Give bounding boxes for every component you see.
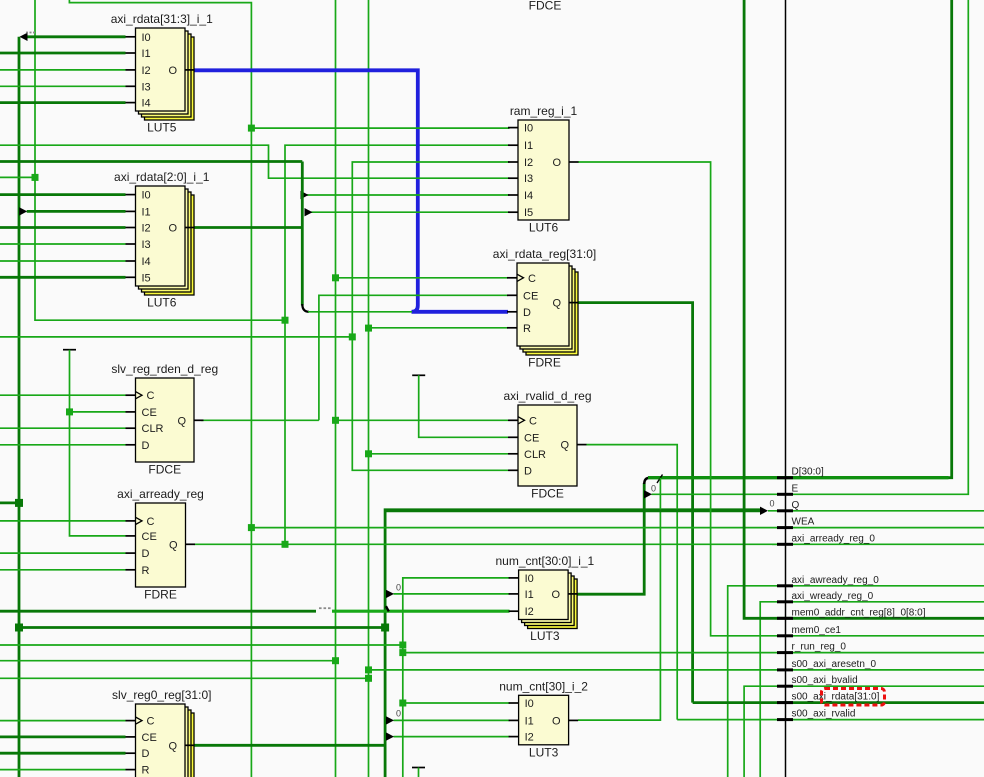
svg-text:I4: I4 — [142, 98, 151, 110]
ellipsis dots num1 I2 — [319, 607, 331, 609]
pin label E — [792, 483, 799, 494]
wire s00_axi_aresetn_0 row — [369, 669, 984, 671]
wire slv_reg_rden CE — [70, 411, 126, 413]
pin label D[30:0] — [792, 467, 824, 478]
pin label axi_arready_reg_0 — [792, 533, 876, 544]
junction V6 CLR row — [365, 450, 372, 457]
svg-text:I3: I3 — [142, 81, 151, 93]
wire LUT6 I1 — [27, 210, 126, 213]
LUT3 num_cnt[30]_i_2 — [499, 679, 588, 759]
wire axi_rvalid C row — [336, 419, 509, 421]
bus tap arrow Q — [760, 507, 768, 515]
svg-text:I5: I5 — [524, 207, 533, 219]
corner arc V12 bottom — [302, 304, 309, 312]
wire slv_reg_rden D — [0, 444, 126, 446]
bus tap arrow LUT6 I1 — [19, 207, 27, 215]
svg-text:I0: I0 — [525, 573, 534, 585]
wire V9 vertical — [419, 375, 508, 437]
svg-text:I3: I3 — [142, 239, 151, 251]
junction V10 WEA — [248, 524, 255, 531]
svg-text:D: D — [142, 548, 150, 560]
svg-text:num_cnt[30:0]_i_1: num_cnt[30:0]_i_1 — [495, 554, 594, 568]
svg-text:D: D — [524, 465, 532, 477]
pin tick E — [777, 493, 793, 496]
svg-text:C: C — [147, 516, 155, 528]
wire LUT5 I0 from bus tap — [27, 35, 126, 38]
pin label s00_axi_bvalid — [792, 675, 858, 686]
svg-text:axi_arready_reg_0: axi_arready_reg_0 — [792, 533, 876, 544]
wire axi_arready D — [0, 552, 126, 554]
svg-text:Q: Q — [169, 539, 178, 551]
svg-text:O: O — [552, 589, 561, 601]
svg-text:I2: I2 — [524, 157, 533, 169]
FDCE slv_reg_rden_d_reg — [111, 362, 218, 477]
wire V3 vertical — [70, 350, 126, 536]
wire bus V7 vertical — [385, 510, 760, 777]
pin label Q — [792, 500, 800, 511]
wire LUT6 I5 — [0, 276, 126, 279]
svg-text:axi_rdata[31:3]_i_1: axi_rdata[31:3]_i_1 — [111, 12, 213, 26]
tap index 0 D row — [651, 484, 656, 494]
svg-text:mem0_ce1: mem0_ce1 — [792, 625, 842, 636]
svg-text:0: 0 — [396, 583, 401, 593]
wire D0 tap vertical V660 — [578, 478, 660, 720]
wire ram I4 — [307, 194, 510, 196]
svg-text:I5: I5 — [142, 272, 151, 284]
wire slv_reg0 R — [0, 769, 126, 771]
LUT3 num_cnt[30:0]_i_1 — [495, 554, 594, 643]
junction V8 r_run row — [399, 649, 406, 656]
wire V1 stub y=502.9 — [0, 501, 19, 504]
wire r_run_reg_0 row — [403, 652, 984, 654]
svg-text:I0: I0 — [142, 190, 151, 202]
bus tap arrow ram I4 — [301, 191, 309, 199]
bus tap arrow num2 I1 — [386, 716, 394, 724]
wire dark row y=161.5 — [0, 160, 302, 163]
svg-text:LUT6: LUT6 — [147, 296, 177, 310]
svg-text:C: C — [528, 273, 536, 285]
wire blue highlighted net O of LUT5 to D of axi_rdata_reg — [194, 70, 508, 311]
junction V1 y=627.5 — [15, 624, 23, 632]
wire axi_awready_reg_0 row — [728, 586, 984, 777]
bus entry tick num1 I2 — [386, 606, 389, 611]
LUT5 axi_rdata[31:3]_i_1 — [111, 12, 213, 135]
pin tick WEA — [777, 526, 793, 529]
svg-text:s00_axi_rdata[31:0]: s00_axi_rdata[31:0] — [792, 692, 880, 703]
svg-text:R: R — [142, 765, 150, 777]
wire ram I2 from V352 elbow — [352, 162, 509, 337]
svg-text:I0: I0 — [525, 698, 534, 710]
svg-text:CE: CE — [524, 432, 539, 444]
wire dark row y=627.5 — [19, 626, 385, 629]
wire slv_reg_rden CLR — [0, 427, 126, 429]
wire axi_rdata_reg CE from V13 — [319, 295, 508, 420]
junction V4 y=320.2 — [282, 317, 289, 324]
wire slv_reg_rden C — [0, 394, 126, 396]
wire num2 I1 tap — [394, 719, 510, 721]
pin label axi_awready_reg_0 — [792, 575, 880, 586]
wire num1 I2 bright segment — [332, 610, 510, 613]
svg-text:Q: Q — [552, 298, 561, 310]
junction V5 C axi_rvalid — [332, 417, 339, 424]
svg-text:CE: CE — [142, 407, 157, 419]
svg-text:CLR: CLR — [142, 423, 164, 435]
pin tick s00_axi_rvalid — [777, 718, 793, 721]
svg-text:FDCE: FDCE — [529, 0, 562, 13]
svg-text:I4: I4 — [524, 190, 533, 202]
svg-text:O: O — [168, 65, 177, 77]
pin tick mem0_ce1 — [777, 634, 793, 637]
pin label s00_axi_aresetn_0 — [792, 659, 877, 670]
svg-text:LUT3: LUT3 — [529, 745, 559, 759]
wire V4 vertical x=285 — [285, 145, 510, 544]
svg-text:ram_reg_i_1: ram_reg_i_1 — [510, 104, 578, 118]
wire LUT6 O to bus V12 — [194, 226, 302, 229]
svg-text:O: O — [552, 157, 561, 169]
svg-text:Q: Q — [177, 415, 186, 427]
wire slv_reg0 D — [0, 752, 126, 755]
pin label mem0_addr_cnt_reg[8]_0[8:0] — [792, 607, 926, 618]
LUT6 ram_reg_i_1 — [508, 104, 579, 235]
svg-text:Q: Q — [560, 440, 569, 452]
wire axi_arready C — [0, 520, 126, 522]
wire s00_axi_rvalid row — [677, 719, 984, 721]
svg-text:s00_axi_rvalid: s00_axi_rvalid — [792, 709, 856, 720]
svg-text:axi_rvalid_d_reg: axi_rvalid_d_reg — [503, 389, 591, 403]
svg-text:num_cnt[30]_i_2: num_cnt[30]_i_2 — [499, 679, 588, 693]
junction V8 num2 I0 — [399, 700, 406, 707]
tap index 0 Q row — [770, 499, 775, 509]
svg-text:D: D — [142, 748, 150, 760]
svg-text:I2: I2 — [525, 606, 534, 618]
svg-text:I1: I1 — [142, 48, 151, 60]
junction V10 ram I0 — [248, 125, 255, 132]
bus tap arrow num1 I1 — [386, 590, 394, 598]
svg-text:LUT5: LUT5 — [147, 121, 177, 135]
wire LUT5 I3 — [0, 85, 126, 87]
svg-text:axi_awready_reg_0: axi_awready_reg_0 — [792, 575, 880, 586]
pin tick axi_awready_reg_0 — [777, 584, 793, 587]
bus tap arrow E — [644, 490, 652, 498]
bus tap arrow ram I5 — [305, 208, 313, 216]
wire num2 I0 — [403, 702, 510, 704]
junction V5 C axi_rdata_reg — [332, 274, 339, 281]
wire V2 vertical x=35 with elbow to V4 — [35, 0, 285, 320]
svg-text:0: 0 — [396, 709, 401, 719]
wire row y=645 left — [0, 644, 403, 646]
wire LUT5 I2 — [0, 69, 126, 71]
pin tick r_run_reg_0 — [777, 651, 793, 654]
wire WEA row — [251, 527, 984, 529]
wire s00_axi_rdata row — [693, 701, 984, 704]
svg-text:I4: I4 — [142, 256, 151, 268]
wire axi_arready Q out / axi_arready_reg_0 row — [195, 543, 778, 545]
svg-text:s00_axi_bvalid: s00_axi_bvalid — [792, 675, 858, 686]
FDRE axi_arready_reg — [117, 487, 204, 602]
svg-text:axi_rdata[2:0]_i_1: axi_rdata[2:0]_i_1 — [114, 170, 210, 184]
wire LUT6 I2 — [0, 226, 126, 229]
wire row y=660.7 left — [0, 660, 336, 662]
wire V6 vertical x=368.5 — [368, 0, 370, 777]
wire V5 vertical x=335.5 — [335, 0, 337, 777]
pin label s00_axi_rvalid — [792, 709, 856, 720]
svg-text:O: O — [552, 715, 561, 727]
pin tick s00_axi_bvalid — [777, 685, 793, 688]
constant tie T-bar bottom — [412, 768, 425, 777]
svg-text:I1: I1 — [525, 589, 534, 601]
svg-text:I2: I2 — [142, 223, 151, 235]
bus ripper slash D0 — [657, 475, 663, 484]
pin label axi_wready_reg_0 — [792, 591, 874, 602]
svg-text:Q: Q — [168, 740, 177, 752]
svg-text:O: O — [168, 223, 177, 235]
wire arready row right — [772, 543, 984, 545]
wire top link y=2.6 — [69, 0, 251, 777]
wire axi_rdata_reg Q out — [578, 303, 693, 703]
wire slv_reg0 C — [0, 720, 126, 722]
svg-text:D: D — [523, 307, 531, 319]
pin tick axi_wready_reg_0 — [777, 600, 793, 603]
svg-text:s00_axi_aresetn_0: s00_axi_aresetn_0 — [792, 659, 877, 670]
wire LUT6 I4 — [0, 260, 126, 262]
svg-text:axi_wready_reg_0: axi_wready_reg_0 — [792, 591, 874, 602]
junction V6 R row — [365, 325, 372, 332]
wire axi_rdata_reg C — [336, 277, 509, 279]
wire D-row green segment — [308, 311, 412, 313]
svg-text:LUT3: LUT3 — [530, 629, 560, 643]
junction V1 y=502.9 — [15, 499, 23, 507]
corner arc D row — [644, 478, 650, 484]
pin tick Q — [777, 509, 793, 512]
FDRE axi_rdata_reg[31:0] — [493, 247, 596, 370]
wire axi_arready R — [0, 569, 126, 571]
svg-text:CLR: CLR — [524, 449, 546, 461]
wire ram I1 jog — [0, 145, 510, 178]
wire axi_rdata_reg R — [369, 327, 509, 329]
svg-text:I2: I2 — [142, 65, 151, 77]
wire Q row dark — [385, 509, 760, 512]
svg-text:C: C — [147, 390, 155, 402]
svg-text:FDCE: FDCE — [531, 487, 564, 501]
svg-text:0: 0 — [770, 499, 775, 509]
svg-text:r_run_reg_0: r_run_reg_0 — [792, 642, 847, 653]
FDCE axi_rvalid_d_reg — [503, 389, 591, 501]
svg-text:I2: I2 — [525, 732, 534, 744]
junction V3 CE — [66, 408, 73, 415]
junction V6 y=678.3 — [365, 675, 372, 682]
FDRE slv_reg0_reg[31:0] — [112, 688, 211, 777]
component boundary line x=785.5 — [785, 0, 787, 777]
svg-text:I0: I0 — [524, 123, 533, 135]
wire D[30:0] riser — [949, 0, 952, 478]
label FDCE of off-screen flop — [529, 0, 562, 13]
pin tick s00_axi_aresetn_0 — [777, 668, 793, 671]
pin label WEA — [792, 517, 815, 528]
svg-text:R: R — [523, 323, 531, 335]
junction V8 y=645.0 — [399, 642, 406, 649]
svg-text:C: C — [529, 415, 537, 427]
junction V6 aresetn row — [365, 666, 372, 673]
svg-text:D[30:0]: D[30:0] — [792, 467, 824, 478]
wire tap y=177.4 — [0, 176, 35, 178]
svg-text:D: D — [142, 440, 150, 452]
wire row y=678.3 left — [0, 677, 369, 679]
svg-text:I1: I1 — [142, 206, 151, 218]
constant tie T-bar x=69.5 — [63, 349, 76, 351]
svg-text:CE: CE — [523, 290, 538, 302]
wire mem0_addr_cnt bus — [744, 0, 984, 618]
svg-text:CE: CE — [142, 531, 157, 543]
svg-text:I1: I1 — [525, 715, 534, 727]
wire axi_rvalid D from V352 — [0, 337, 508, 470]
svg-text:FDRE: FDRE — [144, 588, 177, 602]
wire axi_wready_reg_0 row — [760, 602, 984, 777]
wire num1 I1 tap — [394, 593, 510, 595]
wire num2 I2 tap — [394, 736, 510, 738]
junction V5 y=660.7 — [332, 657, 339, 664]
wire LUT5 I1 — [0, 52, 126, 55]
svg-text:CE: CE — [142, 732, 157, 744]
pin tick mem0_addr_cnt_reg[8]_0[8:0] — [777, 617, 793, 620]
wire LUT6 I0 — [0, 193, 126, 196]
svg-text:slv_reg_rden_d_reg: slv_reg_rden_d_reg — [111, 362, 218, 376]
wire E row — [652, 0, 969, 494]
wire bus V1 vertical x=19 — [18, 37, 21, 777]
junction V4 arready row — [282, 541, 289, 548]
ellipsis dots LUT5 I0 — [26, 32, 35, 34]
svg-text:Q: Q — [792, 500, 800, 511]
pin label s00_axi_rdata[31:0] — [792, 692, 880, 703]
svg-text:LUT6: LUT6 — [529, 221, 559, 235]
wire slv_reg_rden Q out — [201, 419, 319, 421]
bus tap arrow num2 I2 — [386, 732, 394, 740]
wire s00_axi_bvalid row — [744, 686, 984, 777]
svg-text:C: C — [147, 716, 155, 728]
svg-text:FDRE: FDRE — [528, 356, 561, 370]
wire ram I5 — [311, 211, 510, 213]
junction V352 top — [349, 333, 356, 340]
svg-text:axi_arready_reg: axi_arready_reg — [117, 487, 204, 501]
bus tap arrow LUT5 I0 — [20, 33, 28, 41]
svg-text:I1: I1 — [524, 140, 533, 152]
wire axi_rvalid Q out — [587, 445, 678, 720]
wire slv_reg0 CE — [0, 736, 126, 739]
svg-text:I3: I3 — [524, 173, 533, 185]
wire num1 I2 dark segment — [0, 610, 316, 613]
svg-text:0: 0 — [651, 484, 656, 494]
wire num1 O to D bus — [578, 483, 645, 594]
svg-text:mem0_addr_cnt_reg[8]_0[8:0]: mem0_addr_cnt_reg[8]_0[8:0] — [792, 607, 926, 618]
svg-text:R: R — [142, 565, 150, 577]
wire Q row light — [768, 510, 984, 512]
pin tick axi_arready_reg_0 — [777, 543, 793, 546]
wire bus V12 vertical x=302.3 — [301, 162, 304, 306]
svg-text:WEA: WEA — [792, 517, 815, 528]
tap index 0 num1 I1 — [396, 583, 401, 593]
svg-text:E: E — [792, 483, 799, 494]
wire ram I0 from V10 — [251, 127, 509, 129]
pin tick D[30:0] — [777, 476, 793, 479]
pin tick s00_axi_rdata[31:0] — [777, 701, 793, 704]
svg-text:I0: I0 — [142, 32, 151, 44]
constant tie T-bar x=418.7 — [412, 374, 425, 376]
wire D[30:0] row — [648, 476, 949, 479]
pin label mem0_ce1 — [792, 625, 842, 636]
wire axi_rvalid CLR — [369, 453, 509, 455]
svg-text:slv_reg0_reg[31:0]: slv_reg0_reg[31:0] — [112, 688, 211, 702]
junction V7 y=627.5 — [381, 624, 389, 632]
wire slv_reg0 Q out — [195, 744, 386, 747]
svg-text:FDCE: FDCE — [148, 463, 181, 477]
pin label r_run_reg_0 — [792, 642, 847, 653]
tap index 0 num2 I1 — [396, 709, 401, 719]
highlight box s00_axi_rdata[31:0] — [822, 689, 885, 706]
wire LUT5 I4 — [0, 101, 126, 104]
wire LUT6 I3 — [0, 243, 126, 245]
svg-text:axi_rdata_reg[31:0]: axi_rdata_reg[31:0] — [493, 247, 596, 261]
LUT6 axi_rdata[2:0]_i_1 — [114, 170, 210, 310]
wire ram O to mem0_ce1 — [578, 162, 984, 636]
junction V2 y=177.4 — [32, 174, 39, 181]
wire V8 vertical x=402.8 — [403, 578, 510, 777]
